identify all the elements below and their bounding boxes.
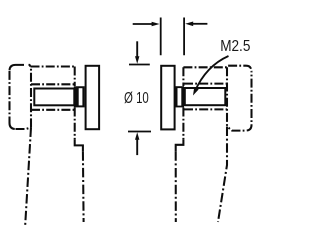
svg-text:Ø 10: Ø 10 xyxy=(124,90,149,107)
right view: device front surface phantom xyxy=(182,67,184,139)
left view: pole phantom left slanted line xyxy=(25,127,31,225)
right view: mounting disc plate (side view) xyxy=(161,66,174,130)
left view: tapped-hole bottom phantom line xyxy=(30,67,32,128)
right view: pole phantom right slanted line xyxy=(218,127,227,223)
leader line from M2.5 to stud thread xyxy=(193,56,229,96)
dimension: diameter 10 bottom tick xyxy=(128,131,151,133)
right view: threaded stud body xyxy=(185,88,226,105)
dimension: standoff distance left arrow xyxy=(133,22,160,27)
right view: device top edge phantom xyxy=(183,66,251,72)
right view: pole phantom left line xyxy=(175,151,177,222)
dimension: diameter 10 top tick xyxy=(129,64,150,66)
left view: tapped hole phantom (above and below stud) xyxy=(31,84,75,110)
left view: device lower step outline xyxy=(75,139,83,151)
left view: device top edge phantom to surface xyxy=(31,65,75,67)
dimension: standoff distance extension lines xyxy=(161,18,184,56)
right view: stud neck / spacer between plate and device xyxy=(176,86,185,107)
left view: stud neck / spacer between device and plate xyxy=(74,86,85,107)
dimension: diameter 10 top arrow (pointing down) xyxy=(135,41,139,63)
left view: threaded stud body xyxy=(34,89,74,106)
right view: device lower step outline xyxy=(176,139,184,151)
right view: tapped-hole bottom phantom line xyxy=(226,67,228,126)
dimension: standoff distance right arrow xyxy=(185,22,207,27)
left view: device body phantom outline (rounded left side) xyxy=(10,65,32,129)
right view: device right edge phantom xyxy=(227,72,252,131)
left view: pole phantom right line xyxy=(82,151,85,222)
dimension: diameter 10 bottom arrow (pointing up) xyxy=(135,132,139,155)
right view: tapped hole phantom (above and below stud) xyxy=(184,84,227,110)
svg-text:M2.5: M2.5 xyxy=(220,38,250,55)
left view: device front surface phantom xyxy=(74,67,76,140)
left view: mounting disc plate (side view) xyxy=(86,66,100,129)
